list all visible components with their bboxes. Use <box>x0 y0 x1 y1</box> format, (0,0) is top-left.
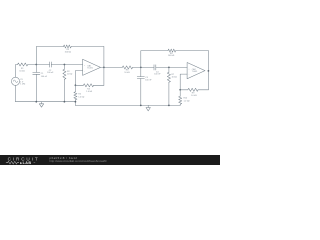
resistor R5 <box>74 92 77 100</box>
wire R3 to output vertical <box>71 46 104 48</box>
wire R2 to ground rail <box>63 79 65 101</box>
svg-text:10 kΩ: 10 kΩ <box>124 72 130 74</box>
ground symbol G1 <box>39 102 43 108</box>
svg-text:+: + <box>84 65 85 67</box>
wire node A down to C1 <box>35 65 37 73</box>
svg-text:100 kΩ: 100 kΩ <box>168 55 175 57</box>
wire inverting node down to R5 <box>74 85 76 92</box>
wire output vertical of stage 2 <box>207 51 209 90</box>
svg-text:1.0 kΩ: 1.0 kΩ <box>184 100 190 102</box>
wire node B2 down to R7 <box>168 67 170 72</box>
node rail junction R7 <box>168 105 170 107</box>
wire output vertical of stage 1 <box>103 47 105 86</box>
svg-text:1 kHz: 1 kHz <box>20 84 25 86</box>
wire R8 to output vertical stage 2 <box>176 50 209 52</box>
resistor R2 <box>63 69 66 79</box>
svg-text:10 kΩ: 10 kΩ <box>19 70 25 72</box>
svg-text:R5: R5 <box>78 94 81 96</box>
node B junction <box>64 64 66 66</box>
svg-text:−: − <box>189 75 190 77</box>
wire rail step down <box>74 102 76 106</box>
voltage source V1 <box>11 77 19 85</box>
node rail junction R5 <box>75 101 77 103</box>
wire ground rail stage 1 <box>16 101 76 103</box>
svg-text:▸LAB: ▸LAB <box>19 161 31 165</box>
node output U2 junction <box>208 70 210 72</box>
wire R6 to capacitor C4 <box>133 66 154 68</box>
svg-text:http://www.circuitlab.com/circ: http://www.circuitlab.com/circuit/6uwu6m… <box>50 159 107 163</box>
resistor R3 <box>64 45 72 48</box>
svg-text:100 nF: 100 nF <box>47 72 54 74</box>
wire R10 to ground rail <box>179 104 181 105</box>
capacitor C3 <box>137 77 144 79</box>
node A junction <box>35 64 37 66</box>
svg-text:TL081: TL081 <box>192 71 199 73</box>
svg-text:−: − <box>84 71 85 73</box>
svg-text:C1: C1 <box>41 73 44 75</box>
wire C3 to ground rail <box>140 79 142 106</box>
wire R1 to capacitor C2 <box>28 64 50 66</box>
svg-text:100 kΩ: 100 kΩ <box>65 52 72 54</box>
svg-text:1.0 kΩ: 1.0 kΩ <box>191 95 197 97</box>
op-amp U2 <box>187 63 205 79</box>
capacitor C1 <box>33 72 40 74</box>
node inverting U2 junction <box>179 89 181 91</box>
node rail junction R2 <box>64 101 66 103</box>
svg-text:TL081: TL081 <box>87 68 94 70</box>
wire node B down to R2 <box>63 65 65 70</box>
resistor R4 <box>83 84 93 87</box>
wire inverting node to R4 <box>75 84 83 86</box>
wire V1 top lead to R1 <box>16 65 18 78</box>
svg-text:1.0 kΩ: 1.0 kΩ <box>86 91 92 93</box>
wire node A2 down to C3 <box>140 67 142 76</box>
svg-text:10 kΩ: 10 kΩ <box>172 77 178 79</box>
svg-text:1.0 kΩ: 1.0 kΩ <box>78 96 84 98</box>
node rail junction C1 <box>35 101 37 103</box>
capacitor C4 <box>154 65 156 70</box>
wire R5 to ground rail <box>74 100 76 102</box>
wire inverting node 2 down to R10 <box>179 90 181 96</box>
resistor R9 <box>188 88 198 91</box>
node rail junction C3 <box>140 105 142 107</box>
svg-text:C3: C3 <box>145 77 148 79</box>
wire R4 to output vertical <box>94 84 104 86</box>
wire C4 to op-amp U2 noninverting input <box>156 66 187 68</box>
wire U2 inverting input stub <box>180 74 187 90</box>
logo trailing mark <box>34 162 36 164</box>
resistor R6 <box>122 66 132 69</box>
svg-text:10 kΩ: 10 kΩ <box>67 73 73 75</box>
wire R7 to ground rail <box>168 82 170 105</box>
svg-text:R10: R10 <box>184 98 189 100</box>
footer watermark bar <box>0 155 220 165</box>
node B2 junction <box>168 67 170 69</box>
capacitor C2 <box>50 62 52 67</box>
wire node A up to feedback loop top <box>36 47 63 65</box>
resistor R1 <box>18 63 28 66</box>
wire C2 to op-amp U1 noninverting input <box>51 64 82 66</box>
resistor R10 <box>179 96 182 104</box>
wire C1 to ground rail <box>35 74 37 101</box>
wire V1 bottom lead to ground rail <box>15 85 17 101</box>
svg-text:100 nF: 100 nF <box>41 76 48 78</box>
logo resistor zigzag <box>6 161 19 164</box>
svg-text:+: + <box>189 69 190 71</box>
wire U1 inverting input stub <box>75 71 82 86</box>
op-amp U1 <box>83 59 101 75</box>
node A2 junction <box>140 67 142 69</box>
node output U1 junction <box>103 67 105 69</box>
resistor R8 <box>168 49 176 52</box>
node inverting U1 junction <box>75 84 77 86</box>
svg-text:100 nF: 100 nF <box>154 74 161 76</box>
resistor R7 <box>167 72 170 82</box>
wire R9 to output vertical 2 <box>198 89 208 91</box>
svg-text:100 nF: 100 nF <box>145 80 152 82</box>
ground symbol G2 <box>146 105 150 111</box>
wire U1 output to R6 <box>101 66 123 68</box>
wire ground rail stage 2 <box>75 104 180 106</box>
wire inverting node 2 to R9 <box>180 89 188 91</box>
wire node A2 up to feedback loop top stage 2 <box>141 51 168 68</box>
